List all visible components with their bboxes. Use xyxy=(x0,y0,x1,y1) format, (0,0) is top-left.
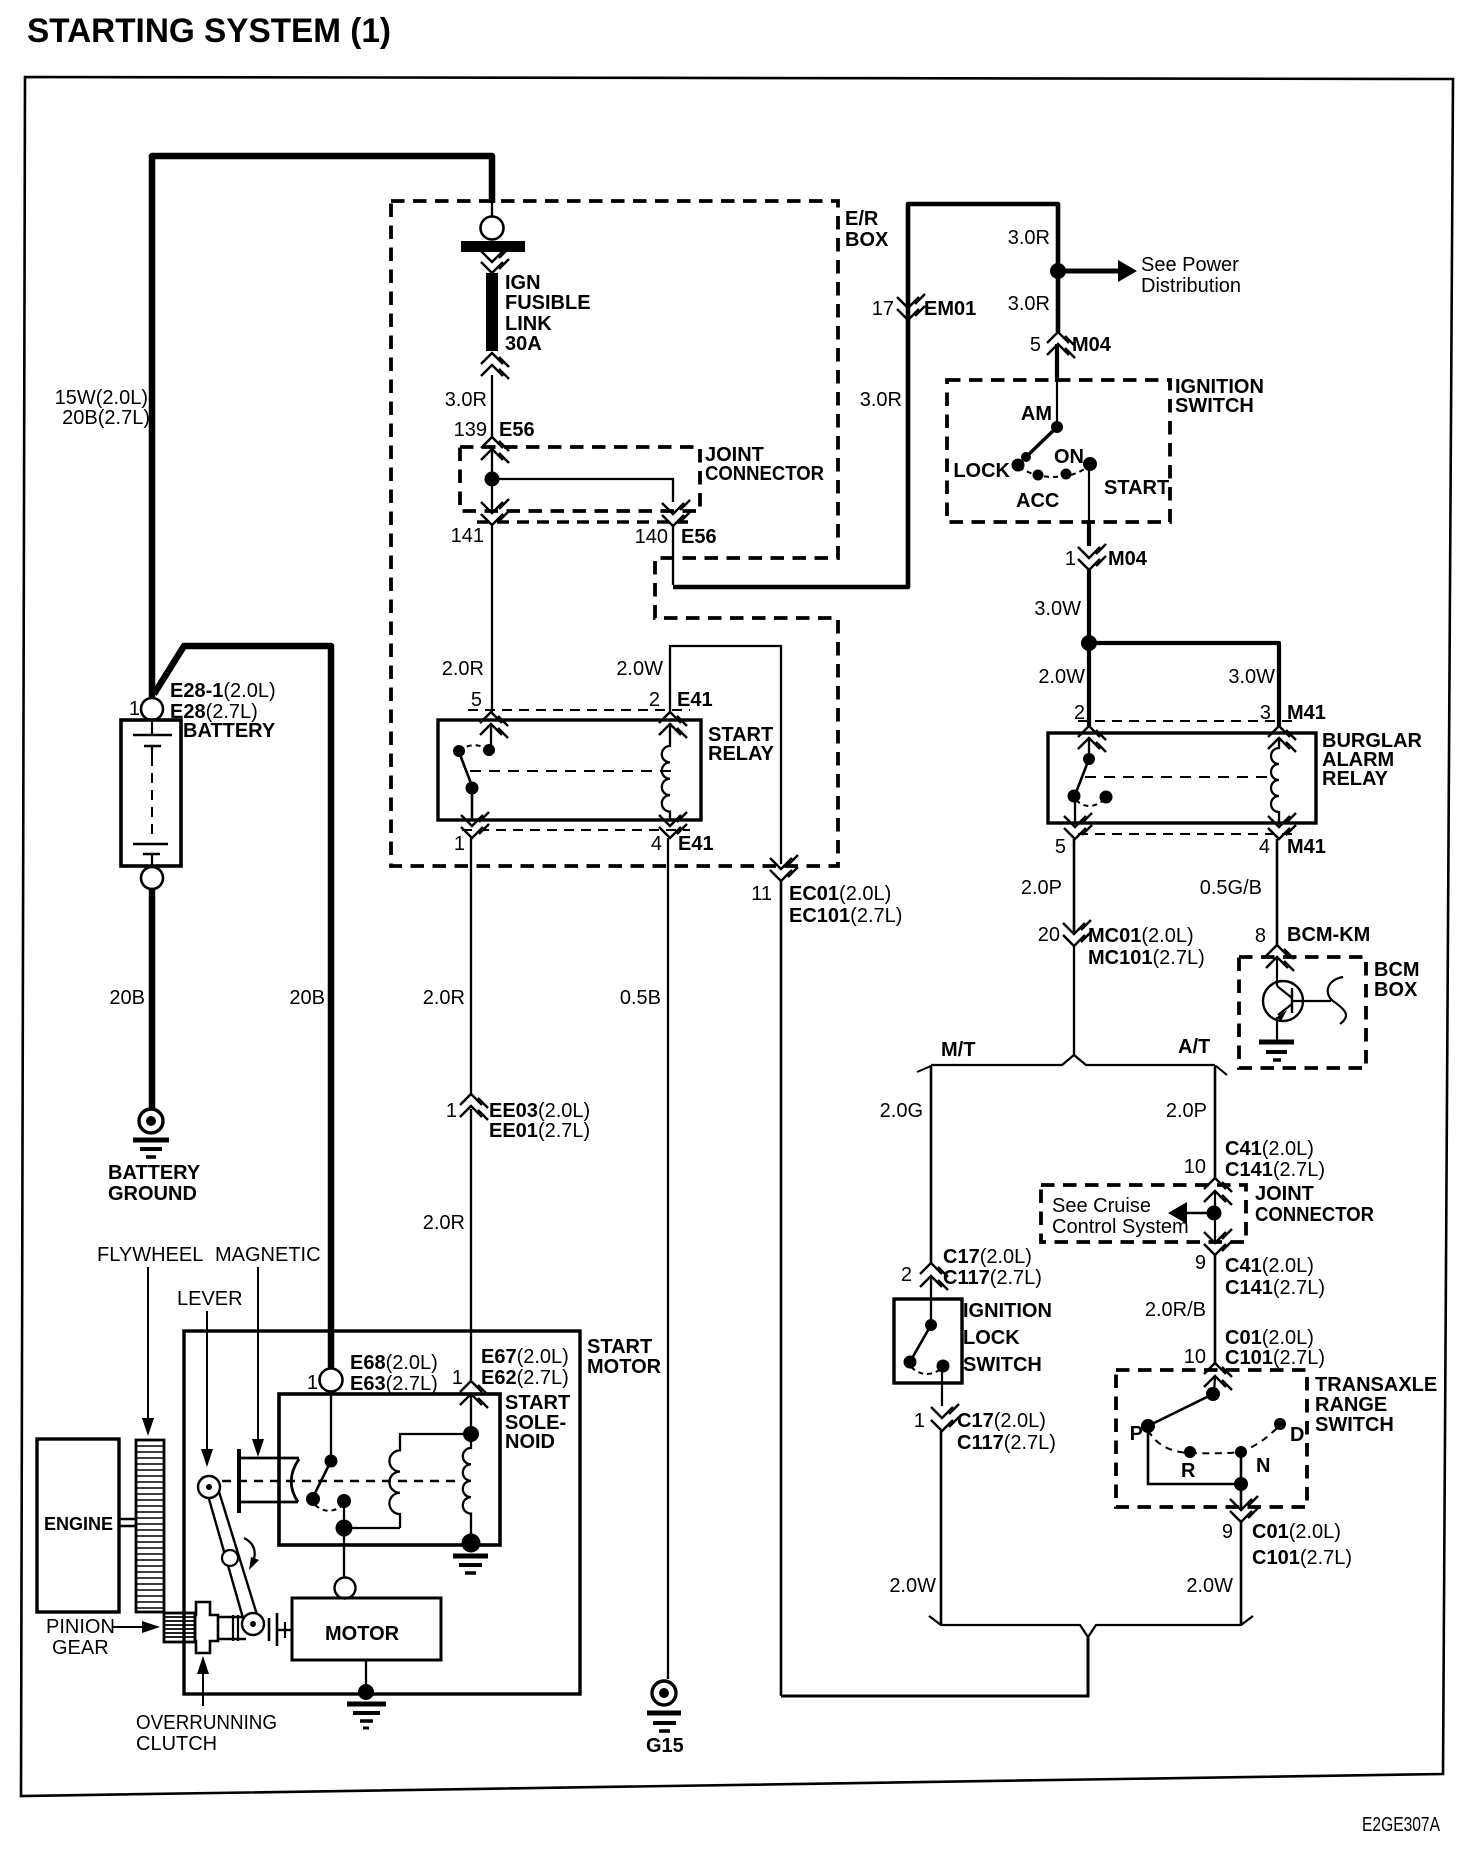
svg-text:3.0R: 3.0R xyxy=(445,389,487,411)
ground inside BCM box xyxy=(1259,1040,1294,1045)
svg-text:3: 3 xyxy=(1260,702,1271,724)
wire 2.0P A/T branch down to C41 xyxy=(1214,1065,1217,1178)
lock switch contacts xyxy=(925,1319,937,1331)
solenoid switch xyxy=(330,1391,332,1461)
svg-text:1: 1 xyxy=(914,1410,925,1432)
svg-text:STARTING SYSTEM (1): STARTING SYSTEM (1) xyxy=(27,12,391,50)
svg-text:20B: 20B xyxy=(109,987,145,1009)
node junction to power distribution xyxy=(1050,263,1066,279)
connector C01/C101 pin 10 xyxy=(1204,1363,1232,1377)
svg-text:M41: M41 xyxy=(1287,702,1326,724)
START SOLENOID box xyxy=(279,1394,500,1545)
svg-text:5: 5 xyxy=(471,689,482,711)
svg-text:2.0W: 2.0W xyxy=(1186,1575,1233,1597)
shift lever xyxy=(203,1478,258,1632)
ground: motor ground xyxy=(358,1684,374,1700)
dashed connector row above start relay xyxy=(468,709,690,711)
svg-text:PINION: PINION xyxy=(46,1616,115,1638)
svg-text:R: R xyxy=(1181,1460,1196,1482)
connector E56 pin 140 xyxy=(662,500,690,514)
svg-text:2.0W: 2.0W xyxy=(1038,666,1085,688)
svg-text:A/T: A/T xyxy=(1178,1036,1210,1058)
connector C01/C101 pin 9 xyxy=(1240,1484,1243,1510)
dashed connector row above burglar relay xyxy=(1078,720,1292,722)
wire P contact down and across to N xyxy=(1148,1430,1241,1484)
wire transistor emitter to ground xyxy=(1276,1017,1278,1041)
svg-text:RELAY: RELAY xyxy=(708,743,775,765)
wire motor to ground xyxy=(365,1660,367,1688)
magnetic plunger xyxy=(237,1449,241,1513)
flywheel ring gear xyxy=(136,1440,164,1612)
svg-text:SWITCH: SWITCH xyxy=(963,1354,1042,1376)
svg-text:RANGE: RANGE xyxy=(1315,1394,1387,1416)
wire 2.0R EE03 down to start motor E67 xyxy=(470,1109,472,1380)
svg-text:2.0G: 2.0G xyxy=(880,1100,923,1122)
wire 20B battery to ground xyxy=(149,889,156,1108)
svg-text:C17(2.0L): C17(2.0L) xyxy=(943,1246,1032,1268)
svg-text:N: N xyxy=(1256,1455,1270,1477)
svg-text:E56: E56 xyxy=(499,419,535,441)
svg-text:2.0P: 2.0P xyxy=(1021,877,1062,899)
svg-text:1: 1 xyxy=(446,1100,457,1122)
connector C17/C117 pin 2 xyxy=(920,1263,948,1277)
node: battery negative terminal connector xyxy=(141,867,163,889)
svg-text:LINK: LINK xyxy=(505,313,552,335)
svg-text:C141(2.7L): C141(2.7L) xyxy=(1225,1159,1325,1181)
wire 2.0W junction down to M41 pin 2 xyxy=(1087,643,1091,726)
wire from junction to 140 output xyxy=(492,479,673,502)
node: bottom merge of M/T and A/T wires xyxy=(929,1616,1253,1637)
pinion gear xyxy=(164,1613,195,1642)
svg-text:2: 2 xyxy=(901,1264,912,1286)
wire START contact down to M04 pin 1 xyxy=(1088,464,1090,521)
wire 140 to 3.0W heavy run xyxy=(672,526,674,585)
ground G15 xyxy=(652,1681,676,1705)
svg-text:20: 20 xyxy=(1038,924,1060,946)
svg-text:START: START xyxy=(587,1336,652,1358)
transistor Q1 inside BCM xyxy=(1276,957,1278,986)
svg-text:OVERRUNNING: OVERRUNNING xyxy=(136,1712,277,1734)
svg-text:EE03(2.0L): EE03(2.0L) xyxy=(489,1100,590,1122)
wire 2.0R/B down to C01 xyxy=(1214,1255,1217,1363)
ENGINE box xyxy=(37,1439,119,1612)
svg-text:GROUND: GROUND xyxy=(108,1183,197,1205)
connector BCM-KM pin 8 xyxy=(1266,945,1294,959)
svg-text:10: 10 xyxy=(1184,1346,1206,1368)
coil squiggle in BCM xyxy=(1328,977,1346,1024)
svg-text:141: 141 xyxy=(451,525,484,547)
svg-text:C141(2.7L): C141(2.7L) xyxy=(1225,1277,1325,1299)
svg-text:1: 1 xyxy=(454,833,465,855)
svg-text:BATTERY: BATTERY xyxy=(108,1162,201,1184)
svg-text:0.5G/B: 0.5G/B xyxy=(1200,877,1262,899)
svg-text:CONNECTOR: CONNECTOR xyxy=(1255,1204,1375,1226)
TRANSAXLE RANGE SWITCH dashed box xyxy=(1116,1370,1307,1507)
wire 20B starter feed: diagonal from battery terminal, over and down to start motor xyxy=(154,646,331,1368)
svg-text:MAGNETIC: MAGNETIC xyxy=(215,1244,321,1266)
svg-text:M/T: M/T xyxy=(941,1039,975,1061)
JOINT CONNECTOR (cruise) dashed box xyxy=(1041,1185,1246,1242)
svg-text:15W(2.0L): 15W(2.0L) xyxy=(55,387,148,409)
node: fusible link terminal circle xyxy=(491,203,493,217)
svg-text:E/R: E/R xyxy=(845,208,879,230)
svg-text:M04: M04 xyxy=(1072,334,1112,356)
wire EC01 down to bottom merge xyxy=(780,881,783,1696)
svg-text:E2GE307A: E2GE307A xyxy=(1362,1814,1441,1836)
svg-text:20B: 20B xyxy=(289,987,325,1009)
wire 0.5G/B pin 4 down to BCM-KM xyxy=(1276,839,1279,945)
svg-text:5: 5 xyxy=(1030,334,1041,356)
svg-text:3.0R: 3.0R xyxy=(860,389,902,411)
pin 1 of start relay xyxy=(461,812,489,826)
svg-text:Control System: Control System xyxy=(1052,1216,1189,1238)
wire 2.0W A/T side down to merge xyxy=(1240,1522,1243,1624)
svg-text:RELAY: RELAY xyxy=(1322,768,1389,790)
svg-text:ON: ON xyxy=(1054,446,1084,468)
svg-text:9: 9 xyxy=(1222,1521,1233,1543)
solenoid pull-in coil xyxy=(389,1434,471,1528)
svg-text:C117(2.7L): C117(2.7L) xyxy=(943,1267,1042,1289)
svg-text:MC101(2.7L): MC101(2.7L) xyxy=(1088,947,1205,969)
svg-text:FUSIBLE: FUSIBLE xyxy=(505,292,591,314)
wire MC01 down to M/T / A/T split xyxy=(1073,946,1075,1055)
svg-text:EC01(2.0L): EC01(2.0L) xyxy=(789,883,891,905)
relay switch contact on pin 5 xyxy=(490,724,492,748)
svg-text:3.0W: 3.0W xyxy=(1228,666,1275,688)
connector chevrons below bus bar xyxy=(481,248,509,262)
svg-text:3.0R: 3.0R xyxy=(1008,293,1050,315)
dashed mechanical link inside relay xyxy=(470,770,672,772)
dashed connector row under joint connector xyxy=(477,520,688,523)
connector M04 pin 1 xyxy=(1078,544,1106,558)
svg-text:2: 2 xyxy=(1074,702,1085,724)
overrunning clutch body xyxy=(195,1602,218,1653)
dashed connector row below burglar relay xyxy=(1078,833,1292,835)
connector MC01/MC101 pin 20 xyxy=(1063,920,1091,934)
engine to flywheel shaft xyxy=(119,1518,136,1520)
wire 2.0G M/T branch down to lock switch xyxy=(930,1065,933,1263)
wire 20B battery feed: top horizontal run and vertical to battery + terminal xyxy=(152,156,492,697)
svg-text:C17(2.0L): C17(2.0L) xyxy=(957,1410,1046,1432)
svg-text:CLUTCH: CLUTCH xyxy=(136,1733,217,1755)
wire lock switch to C17 pin 1 xyxy=(941,1366,943,1406)
svg-text:See Power: See Power xyxy=(1141,254,1239,276)
relay movable arm xyxy=(459,752,472,786)
svg-text:C117(2.7L): C117(2.7L) xyxy=(957,1432,1056,1454)
wire 3.0R from fusible link to joint connector xyxy=(491,375,493,437)
svg-text:P: P xyxy=(1130,1423,1143,1445)
svg-text:JOINT: JOINT xyxy=(1255,1183,1314,1205)
svg-text:4: 4 xyxy=(651,833,662,855)
svg-text:EC101(2.7L): EC101(2.7L) xyxy=(789,905,902,927)
connector C17/C117 pin 1 xyxy=(931,1404,959,1418)
node junction dot to cruise arrow xyxy=(1207,1206,1222,1221)
svg-text:1: 1 xyxy=(307,1372,318,1394)
ground: solenoid ground xyxy=(453,1554,488,1559)
wire from solenoid to motor xyxy=(343,1536,345,1577)
svg-text:E41: E41 xyxy=(678,833,714,855)
svg-text:SWITCH: SWITCH xyxy=(1315,1414,1394,1436)
svg-text:E68(2.0L): E68(2.0L) xyxy=(350,1352,438,1374)
svg-text:IGN: IGN xyxy=(505,272,541,294)
svg-text:139: 139 xyxy=(454,419,487,441)
IGNITION SWITCH dashed box xyxy=(947,380,1170,522)
svg-text:2.0P: 2.0P xyxy=(1166,1100,1207,1122)
svg-text:1: 1 xyxy=(452,1367,463,1389)
wire heavy run to EM01 xyxy=(673,204,1058,587)
fusible link bus bar xyxy=(461,241,525,252)
svg-text:C01(2.0L): C01(2.0L) xyxy=(1252,1521,1341,1543)
JOINT CONNECTOR dashed box xyxy=(460,447,700,511)
svg-text:LOCK: LOCK xyxy=(963,1327,1020,1349)
svg-text:E63(2.7L): E63(2.7L) xyxy=(350,1373,438,1395)
svg-text:20B(2.7L): 20B(2.7L) xyxy=(62,407,150,429)
svg-text:30A: 30A xyxy=(505,333,542,355)
burglar relay coil xyxy=(1271,738,1279,823)
svg-text:AM: AM xyxy=(1021,403,1052,425)
wire 2.0R relay pin1 down to EE03 xyxy=(470,838,472,1096)
svg-text:See Cruise: See Cruise xyxy=(1052,1195,1151,1217)
svg-text:2.0R: 2.0R xyxy=(442,658,484,680)
svg-text:8: 8 xyxy=(1255,925,1266,947)
node: motor terminal circle xyxy=(335,1578,356,1599)
svg-text:C41(2.0L): C41(2.0L) xyxy=(1225,1138,1314,1160)
connector EM01 pin 17 xyxy=(897,294,925,308)
node junction dot in joint connector xyxy=(485,472,500,487)
svg-text:E67(2.0L): E67(2.0L) xyxy=(481,1346,569,1368)
svg-text:M41: M41 xyxy=(1287,836,1326,858)
dashed connector row below start relay xyxy=(462,829,690,831)
svg-text:EE01(2.7L): EE01(2.7L) xyxy=(489,1120,590,1142)
BURGLAR ALARM RELAY K2 box xyxy=(1048,733,1316,823)
svg-text:2.0R/B: 2.0R/B xyxy=(1145,1299,1206,1321)
dashed mechanical link through solenoid xyxy=(222,1480,462,1482)
node: solenoid terminal E68/E63 pin 1 xyxy=(320,1369,343,1392)
wire 3.0W down to junction xyxy=(1087,570,1091,643)
svg-text:E62(2.7L): E62(2.7L) xyxy=(481,1367,569,1389)
connector C41/C141 pin 10 xyxy=(1204,1178,1232,1192)
svg-text:0.5B: 0.5B xyxy=(620,987,661,1009)
svg-text:1: 1 xyxy=(1065,548,1076,570)
svg-text:Distribution: Distribution xyxy=(1141,275,1241,297)
svg-text:LOCK: LOCK xyxy=(953,460,1010,482)
svg-text:BOX: BOX xyxy=(1374,979,1418,1001)
burglar relay switch xyxy=(1088,738,1090,757)
wire 2.0P pin 5 down to MC01 xyxy=(1073,839,1076,934)
svg-text:LEVER: LEVER xyxy=(177,1288,243,1310)
svg-text:TRANSAXLE: TRANSAXLE xyxy=(1315,1374,1437,1396)
node: M/T / A/T branch split xyxy=(931,1055,1215,1065)
clutch drive shaft xyxy=(218,1616,246,1618)
wire through cruise joint connector xyxy=(1214,1191,1216,1242)
svg-text:SWITCH: SWITCH xyxy=(1175,395,1254,417)
svg-text:BCM: BCM xyxy=(1374,959,1420,981)
svg-text:M04: M04 xyxy=(1108,548,1148,570)
svg-text:E28-1(2.0L): E28-1(2.0L) xyxy=(170,680,276,702)
E/R BOX dashed outline xyxy=(391,201,838,866)
svg-text:E56: E56 xyxy=(681,526,717,548)
svg-text:C41(2.0L): C41(2.0L) xyxy=(1225,1255,1314,1277)
svg-text:BATTERY: BATTERY xyxy=(183,720,276,742)
svg-text:3.0R: 3.0R xyxy=(1008,227,1050,249)
svg-text:11: 11 xyxy=(751,883,772,905)
wire M04 into ignition switch xyxy=(1055,344,1059,382)
BCM BOX dashed outline xyxy=(1239,957,1366,1068)
svg-text:1: 1 xyxy=(129,698,140,720)
motor shaft fork xyxy=(268,1618,271,1641)
svg-text:17: 17 xyxy=(872,298,894,320)
motor M box xyxy=(292,1598,441,1660)
pin 4 of start relay xyxy=(659,812,687,826)
svg-text:4: 4 xyxy=(1259,836,1270,858)
wire 3.0W across to M41 pin 3 xyxy=(1089,643,1279,726)
wire 2.0W start relay pin 2 up over to EC01 xyxy=(670,646,781,864)
ground: battery ground xyxy=(139,1109,163,1133)
connector C41/C141 pin 9 xyxy=(1204,1229,1232,1243)
svg-text:BCM-KM: BCM-KM xyxy=(1287,924,1370,946)
node junction dot at hold-in coil top xyxy=(463,1426,479,1442)
dashed mechanical link inside burglar relay xyxy=(1085,776,1275,778)
svg-text:2.0W: 2.0W xyxy=(616,658,663,680)
wire 2.0W M/T side down to merge xyxy=(940,1431,943,1624)
svg-text:2.0W: 2.0W xyxy=(889,1575,936,1597)
wire 2.0R joint connector 141 to start relay pin 5 xyxy=(491,525,493,712)
arrow to cruise control system xyxy=(1186,1212,1214,1215)
svg-text:NOID: NOID xyxy=(505,1431,555,1453)
svg-text:C101(2.7L): C101(2.7L) xyxy=(1252,1547,1352,1569)
svg-text:MC01(2.0L): MC01(2.0L) xyxy=(1088,925,1194,947)
svg-text:2: 2 xyxy=(649,689,660,711)
svg-text:E41: E41 xyxy=(677,689,713,711)
svg-text:MOTOR: MOTOR xyxy=(587,1356,662,1378)
svg-text:ENGINE: ENGINE xyxy=(44,1514,113,1534)
svg-text:2.0R: 2.0R xyxy=(423,1212,465,1234)
pin 5 of burglar relay xyxy=(1064,813,1092,827)
svg-text:10: 10 xyxy=(1184,1156,1206,1178)
relay coil between pins 2 and 4 xyxy=(662,724,670,820)
svg-text:IGNITION: IGNITION xyxy=(963,1300,1052,1322)
svg-text:140: 140 xyxy=(635,526,668,548)
connector EC01/EC101 pin 11 xyxy=(770,855,798,869)
wire merge down and across to EC01 wire xyxy=(781,1637,1088,1696)
solenoid hold-in coil xyxy=(463,1434,471,1537)
svg-text:C01(2.0L): C01(2.0L) xyxy=(1225,1327,1314,1349)
svg-text:GEAR: GEAR xyxy=(52,1637,109,1659)
svg-text:FLYWHEEL: FLYWHEEL xyxy=(97,1244,203,1266)
connector E67/E62 pin 1 xyxy=(460,1381,488,1395)
node: battery positive terminal connector E28-1/E28 pin 1 xyxy=(141,698,163,720)
svg-text:START: START xyxy=(505,1392,570,1414)
node dot at solenoid ground xyxy=(462,1534,481,1553)
node junction dot to pull-in coil xyxy=(336,1520,353,1537)
svg-text:D: D xyxy=(1290,1424,1304,1446)
svg-text:2.0R: 2.0R xyxy=(423,987,465,1009)
svg-text:BOX: BOX xyxy=(845,229,889,251)
node junction dot at N leg xyxy=(1234,1477,1248,1491)
svg-text:EM01: EM01 xyxy=(924,298,976,320)
transaxle switch contacts xyxy=(1214,1376,1215,1394)
connector M04 pin 5 xyxy=(1047,332,1075,346)
svg-text:G15: G15 xyxy=(646,1735,684,1757)
wire 0.5B relay pin 4 down to ground G15 xyxy=(667,838,669,1679)
svg-text:5: 5 xyxy=(1055,836,1066,858)
node junction above burglar alarm relay xyxy=(1081,635,1097,651)
lever rotation arrow xyxy=(244,1538,255,1565)
IGNITION LOCK SWITCH box xyxy=(930,1276,932,1325)
wire contact to motor xyxy=(343,1501,345,1528)
svg-text:CONNECTOR: CONNECTOR xyxy=(705,463,825,485)
arrow: see power distribution xyxy=(1058,269,1120,274)
svg-text:9: 9 xyxy=(1195,1252,1206,1274)
svg-text:MOTOR: MOTOR xyxy=(325,1623,400,1645)
start relay K1 box xyxy=(438,720,701,820)
svg-text:C101(2.7L): C101(2.7L) xyxy=(1225,1347,1325,1369)
wire inside joint connector xyxy=(491,449,493,512)
svg-text:ACC: ACC xyxy=(1016,490,1059,512)
connector E56 pin 141 xyxy=(481,499,509,513)
svg-text:3.0W: 3.0W xyxy=(1034,598,1081,620)
svg-text:START: START xyxy=(1104,477,1169,499)
pin 4 of burglar relay xyxy=(1268,813,1296,827)
START MOTOR outer box xyxy=(184,1331,580,1694)
fuse F1: IGN FUSIBLE LINK 30A body xyxy=(486,273,498,351)
